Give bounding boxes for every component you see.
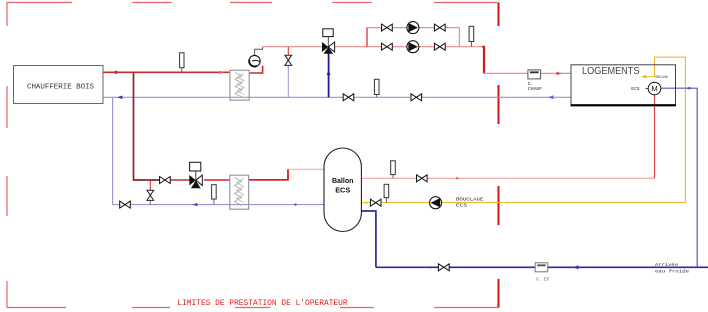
wire: red ECS distribution y=178.3	[361, 177, 654, 179]
heat exchanger E2	[230, 175, 249, 209]
node: red flow arrow near boiler	[115, 70, 121, 74]
node: yellow dot at ballon outlet	[366, 202, 368, 204]
ballon ECS tank	[324, 148, 361, 232]
wire: dark connector pump P1 top	[255, 47, 263, 56]
wire: branch left riser x=367	[366, 28, 368, 47]
svg-text:CHAUFFERIE BOIS: CHAUFFERIE BOIS	[27, 83, 94, 91]
svg-text:eau froide: eau froide	[655, 268, 689, 274]
wire: red line to LOGEMENTS y=73.4	[484, 72, 571, 74]
node: blue dot cold water mid	[429, 266, 431, 268]
node: red arrow to heat meter	[557, 72, 562, 76]
wire: blue drop to secondary circuit x=112.6	[112, 97, 114, 204]
pump P3 lower branch	[407, 41, 419, 53]
node: blue arrow on V1 drop	[327, 70, 331, 75]
valve on secondary supply (isolation) x=386.9 upper branch	[382, 24, 393, 31]
svg-text:LOGEMENTS: LOGEMENTS	[582, 66, 640, 77]
wire: red ECS riser to mixing valve x=654.5	[654, 95, 656, 179]
relief valve S1	[285, 55, 292, 65]
thermometer T5 on bouclage	[384, 184, 389, 202]
node: blue arrow cold water at mixing	[685, 87, 690, 90]
svg-text:BOUCLAGE: BOUCLAGE	[456, 197, 484, 203]
svg-text:ECS: ECS	[335, 186, 350, 195]
LOGEMENTS box	[571, 65, 677, 106]
wire: blue stub relief valve S2	[149, 201, 151, 205]
operator limit dashed border left	[6, 3, 8, 308]
valve on cold water x=443.8	[438, 264, 449, 271]
operator limit dashed border top	[7, 2, 498, 4]
wire: red primary supply y=72.3	[103, 71, 230, 73]
node: blue flow arrow near boiler	[117, 96, 123, 100]
node: blue arrow secondary return	[192, 203, 198, 207]
valve on ECS line x=421.8	[417, 175, 428, 182]
pump P2 upper branch	[407, 22, 419, 34]
thermometer T2 after branches	[469, 26, 474, 46]
wire: blue secondary return y=204.6	[113, 204, 325, 206]
boiler box CHAUFFERIE BOIS	[14, 66, 104, 104]
node: blue dot near ballon inlet	[294, 203, 296, 205]
valve lower branch right x=439.8	[434, 43, 445, 50]
wire: cold water main y=267.3	[376, 266, 708, 268]
water meter C.EF	[535, 263, 550, 283]
svg-text:C. EF: C. EF	[536, 277, 550, 282]
wire: yellow arrow stub into LOGEMENTS	[646, 76, 655, 78]
svg-text:ECS: ECS	[456, 203, 467, 209]
wire: yellow bouclage ECS loop	[361, 57, 685, 202]
operator limit dashed border bottom	[7, 307, 499, 309]
valve lower branch left x=386.9	[382, 43, 393, 50]
svg-text:Ballon: Ballon	[332, 176, 354, 185]
check valve on bouclage x=375.5	[370, 199, 381, 206]
relief valve S2	[147, 190, 154, 200]
wire: cold water riser to mixing valve x=694.3	[661, 88, 697, 267]
wire: cold water to ballon	[361, 211, 376, 267]
wire: branch right riser x=459.4	[458, 28, 460, 47]
wire: red secondary supply top y=46.7	[263, 46, 367, 48]
svg-text:ECS: ECS	[631, 86, 640, 92]
thermometer T1 on primary supply	[180, 53, 184, 73]
thermometer T3 on return	[374, 79, 379, 97]
valve upper branch right x=439.8	[434, 24, 445, 31]
valve on secondary return x=125	[120, 201, 131, 208]
3-way valve V2 with actuator	[189, 162, 202, 188]
wire: maroon tee down to exchanger E2 x=133.5	[134, 72, 161, 180]
node: blue arrow return from LOGEMENTS	[548, 95, 554, 99]
svg-text:M: M	[651, 84, 657, 93]
node: red flow arrow before exchanger E1	[220, 71, 225, 74]
wire: red from exchanger E2 to ballon with jog	[249, 169, 288, 180]
wire: red lower branch y=46.7	[367, 46, 459, 48]
wire: blue primary return y=97.3	[103, 96, 571, 98]
pump P4 bouclage ECS	[430, 197, 442, 209]
svg-text:BOUCLAGE: BOUCLAGE	[656, 75, 669, 79]
thermometer T6 near exchanger E2	[212, 185, 217, 205]
valve on secondary red line x=164.8	[160, 177, 171, 184]
mixing valve M in LOGEMENTS	[646, 82, 661, 95]
pump P1 primary circulator	[249, 55, 260, 66]
wire: dark blue drop from 3-way valve V1	[328, 53, 330, 98]
wire: blue stub relief valve S1	[287, 66, 289, 98]
heat exchanger E1	[230, 70, 249, 100]
operator limit dashed boundary vertical x=498.5	[498, 3, 500, 308]
svg-text:Arrivée: Arrivée	[655, 262, 678, 268]
heat meter C.CHAUF	[528, 70, 543, 92]
valve on return Vb1 x=348.2	[343, 94, 354, 101]
3-way valve V1 with actuator	[322, 29, 335, 54]
svg-text:LIMITES DE PRESTATION DE L'OPE: LIMITES DE PRESTATION DE L'OPERATEUR	[177, 298, 347, 308]
wire: red stub relief valve S2	[149, 180, 151, 190]
wire: red stub relief valve S1	[287, 47, 289, 55]
wire: red elbow to heat meter x=484	[459, 46, 482, 48]
thermometer T4 on ECS line	[391, 161, 396, 179]
node: blue arrow on cold water main	[573, 265, 579, 269]
wire: red from exchanger E1 up to pump P1	[249, 66, 262, 73]
wire: red supply into exchanger E2	[204, 179, 230, 181]
node: red tick on ECS line	[456, 177, 461, 180]
svg-text:CHAUF: CHAUF	[528, 87, 543, 92]
wire: red upper branch y=27.6	[367, 27, 459, 29]
valve on return Vb2 x=416.2	[411, 94, 422, 101]
